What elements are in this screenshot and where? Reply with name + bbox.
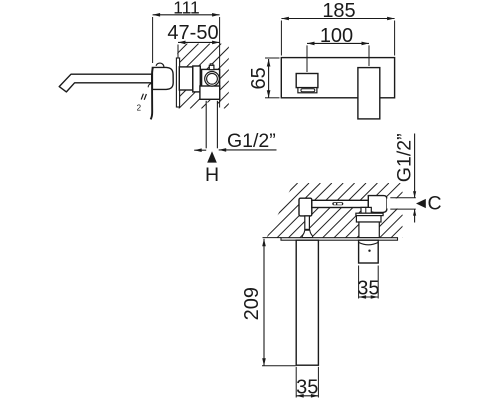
handle base inner detail (301, 89, 315, 92)
dimension 111 (153, 14, 220, 16)
svg-text:35: 35 (296, 376, 318, 398)
inlet lower arrow (414, 209, 416, 222)
inlet connection clear zone (387, 198, 416, 208)
supply connection circle outer (205, 72, 220, 87)
inlet nub on valve top (210, 64, 213, 66)
inlet lower extension line (390, 208, 416, 210)
svg-text:G1/2”: G1/2” (393, 133, 415, 182)
front view plate (281, 58, 394, 98)
spout base block (section) (368, 196, 387, 213)
escutcheon plate (side view) (176, 58, 179, 107)
handle block (section) (299, 198, 312, 216)
G1/2 leader (section) (414, 134, 416, 198)
spout flange tier C (359, 222, 379, 238)
G1/2 leader line (219, 149, 277, 151)
svg-text:2: 2 (137, 104, 142, 113)
handle stem flare (302, 230, 312, 237)
supply connection circle inner (207, 73, 218, 84)
spout flange tier A (356, 213, 383, 215)
wall section hatching (bottom view) (197, 183, 457, 238)
spout (side view) (59, 74, 152, 92)
dimension 47-50 (178, 41, 220, 43)
aerator arc (359, 242, 379, 244)
dimension 65 (268, 59, 270, 98)
aerator tube below plate (359, 240, 379, 263)
handle stem (section) (305, 216, 310, 230)
spout flange tier B (356, 216, 381, 222)
svg-text:111: 111 (173, 0, 200, 17)
valve lower block (200, 86, 220, 99)
svg-text:47-50: 47-50 (167, 22, 218, 44)
inlet upper extension line (390, 197, 416, 199)
body bar (section) (312, 200, 369, 207)
svg-text:35: 35 (357, 278, 379, 300)
spout front view (358, 68, 380, 119)
angle tick marks (141, 94, 143, 100)
dimension 35 spout tube (295, 367, 297, 398)
escutcheon plate (section, edge-on) (281, 238, 398, 241)
svg-text:H: H (205, 164, 219, 186)
spout neck (361, 207, 371, 213)
handle front view (296, 74, 318, 88)
supply pipe below valve (206, 103, 217, 149)
svg-text:185: 185 (322, 0, 355, 22)
pipe left arrow (194, 149, 206, 151)
valve body block (202, 69, 220, 86)
svg-text:C: C (428, 193, 442, 215)
svg-text:G1/2”: G1/2” (227, 130, 276, 152)
wall section hatching (side view) (111, 44, 289, 109)
svg-text:65: 65 (248, 67, 270, 89)
aerator dot (368, 250, 370, 252)
svg-text:209: 209 (241, 287, 263, 320)
dimension 209 (263, 239, 265, 366)
cartridge flange (193, 66, 201, 92)
C marker triangle (416, 199, 426, 208)
handle base bar (298, 88, 317, 93)
vertical spout tube (296, 240, 318, 365)
cartridge window detail (332, 202, 343, 205)
svg-text:100: 100 (320, 25, 353, 47)
handle curl on body top (156, 63, 164, 67)
wall inner face / extension line (219, 17, 221, 108)
spout-body joint mark (148, 84, 152, 88)
handle lever hanging down (151, 68, 153, 120)
dimension 100 (307, 42, 369, 44)
dimension 185 (281, 18, 394, 20)
cartridge housing in wall (179, 67, 193, 90)
dimension 35 aerator (358, 266, 360, 299)
mixer body dome (side view) (152, 67, 173, 89)
H marker triangle (207, 151, 217, 162)
